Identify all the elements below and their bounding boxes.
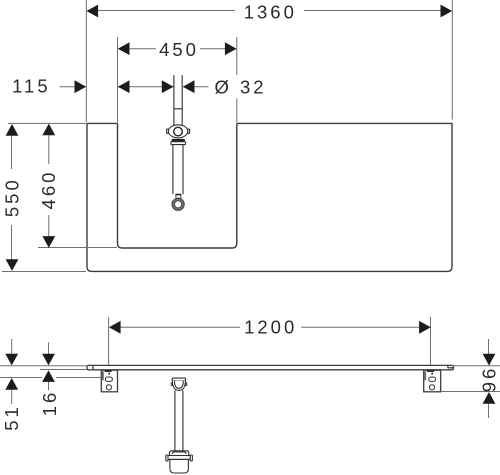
svg-text:1360: 1360	[244, 1, 297, 22]
svg-text:1200: 1200	[244, 316, 297, 337]
svg-text:Ø 32: Ø 32	[214, 76, 266, 97]
svg-text:96: 96	[478, 366, 499, 393]
svg-text:550: 550	[2, 177, 23, 217]
svg-text:460: 460	[38, 170, 59, 210]
svg-text:115: 115	[12, 75, 51, 96]
svg-text:450: 450	[159, 39, 199, 60]
svg-text:51: 51	[1, 404, 22, 431]
svg-text:16: 16	[39, 390, 60, 417]
